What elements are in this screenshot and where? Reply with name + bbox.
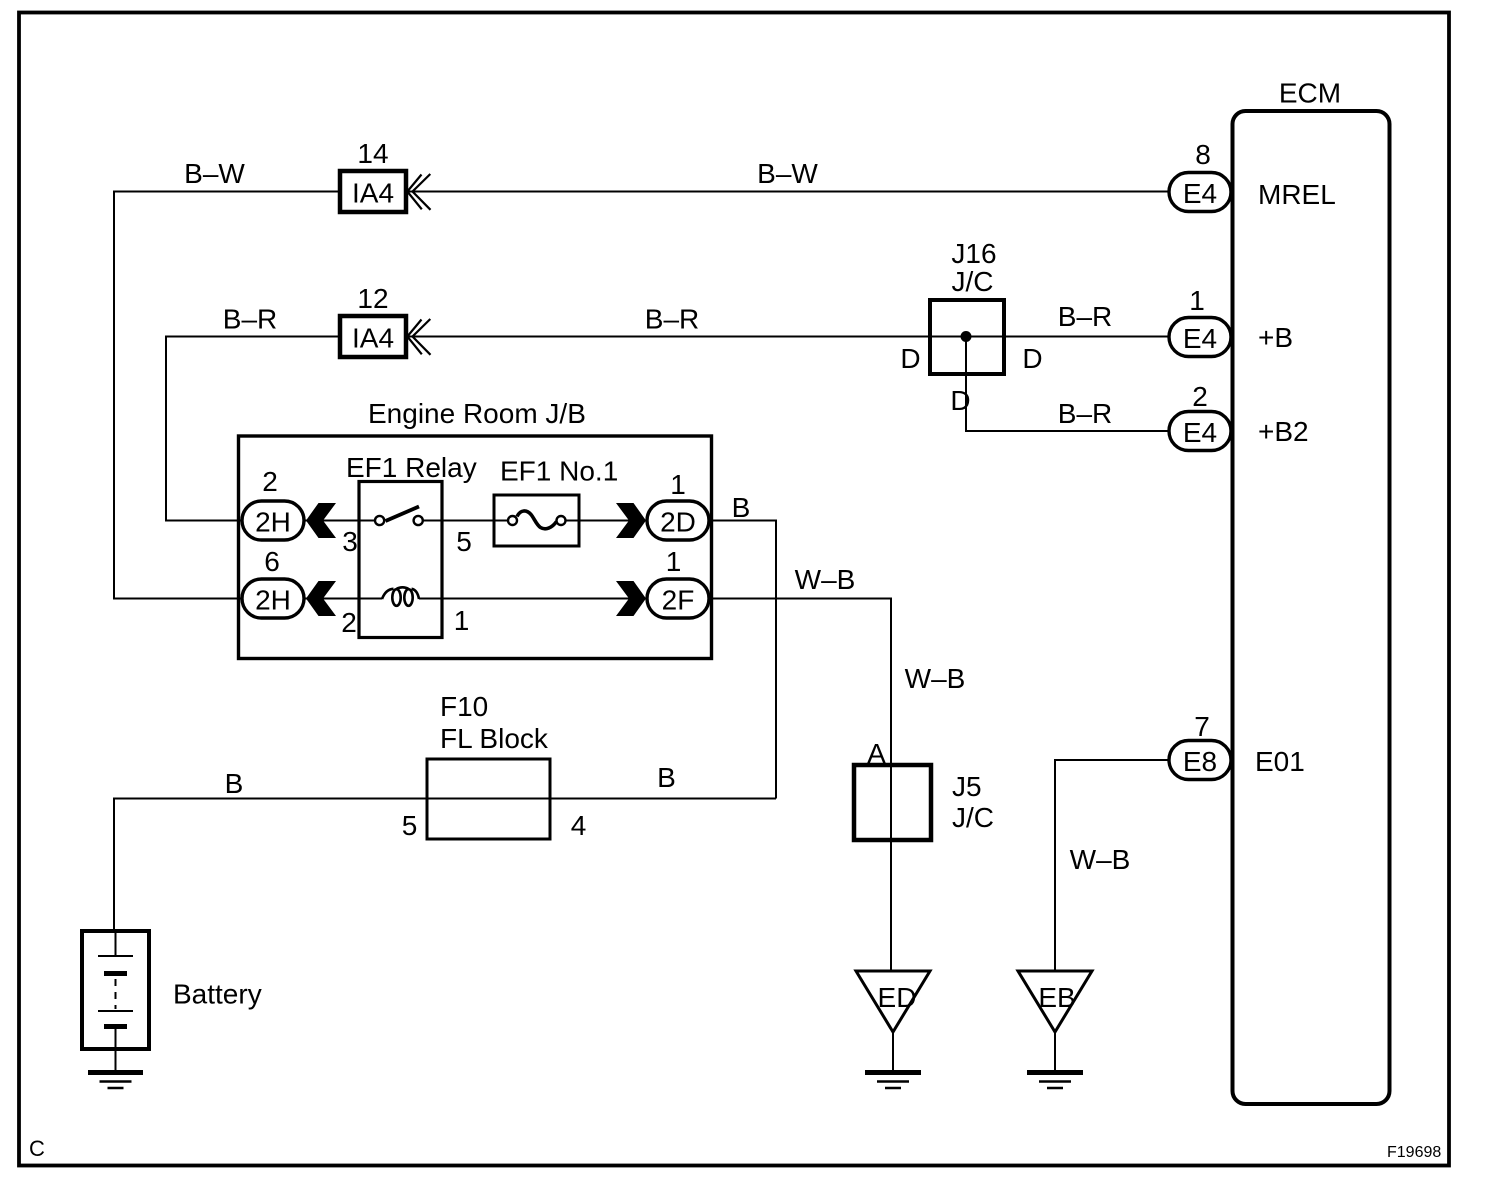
svg-text:B–W: B–W [184, 158, 245, 189]
svg-text:J16: J16 [951, 238, 996, 269]
svg-text:+B2: +B2 [1258, 416, 1309, 447]
svg-text:D: D [950, 385, 970, 416]
svg-text:2: 2 [341, 607, 357, 638]
svg-text:5: 5 [402, 810, 418, 841]
svg-text:2: 2 [262, 466, 278, 497]
svg-text:1: 1 [670, 469, 686, 500]
svg-text:Engine Room J/B: Engine Room J/B [368, 398, 586, 429]
svg-text:E4: E4 [1183, 178, 1217, 209]
svg-text:W–B: W–B [795, 564, 856, 595]
svg-text:8: 8 [1195, 139, 1211, 170]
svg-text:A: A [867, 738, 886, 769]
svg-text:+B: +B [1258, 322, 1293, 353]
svg-text:1: 1 [454, 605, 470, 636]
svg-text:4: 4 [571, 810, 587, 841]
svg-text:5: 5 [456, 526, 472, 557]
svg-text:2H: 2H [255, 585, 291, 616]
svg-text:1: 1 [666, 546, 682, 577]
svg-text:1: 1 [1189, 285, 1205, 316]
svg-text:B: B [657, 762, 676, 793]
svg-text:MREL: MREL [1258, 179, 1336, 210]
svg-text:3: 3 [342, 526, 358, 557]
svg-text:ED: ED [878, 982, 917, 1013]
svg-text:D: D [900, 343, 920, 374]
svg-text:W–B: W–B [1070, 844, 1131, 875]
svg-text:C: C [29, 1136, 45, 1161]
svg-text:FL Block: FL Block [440, 723, 549, 754]
svg-text:B–R: B–R [1058, 301, 1112, 332]
svg-text:EF1 No.1: EF1 No.1 [500, 456, 618, 487]
svg-text:EF1 Relay: EF1 Relay [346, 452, 477, 483]
svg-text:D: D [1022, 343, 1042, 374]
svg-text:IA4: IA4 [352, 178, 394, 209]
svg-text:B–W: B–W [757, 158, 818, 189]
svg-text:J/C: J/C [952, 802, 994, 833]
svg-text:2: 2 [1192, 381, 1208, 412]
svg-text:2H: 2H [255, 507, 291, 538]
svg-text:B–R: B–R [645, 304, 699, 335]
svg-text:7: 7 [1194, 711, 1210, 742]
svg-text:F10: F10 [440, 691, 488, 722]
svg-text:14: 14 [357, 138, 388, 169]
svg-text:E4: E4 [1183, 417, 1217, 448]
svg-text:2D: 2D [660, 507, 696, 538]
svg-text:E01: E01 [1255, 746, 1305, 777]
svg-text:B–R: B–R [223, 304, 277, 335]
svg-text:B–R: B–R [1058, 398, 1112, 429]
svg-text:E4: E4 [1183, 323, 1217, 354]
svg-text:ECM: ECM [1279, 78, 1341, 109]
svg-text:12: 12 [357, 283, 388, 314]
svg-text:6: 6 [264, 546, 280, 577]
svg-text:W–B: W–B [905, 663, 966, 694]
svg-text:EB: EB [1038, 982, 1075, 1013]
svg-text:E8: E8 [1183, 746, 1217, 777]
svg-text:B: B [225, 768, 244, 799]
svg-text:Battery: Battery [173, 979, 262, 1010]
svg-text:J5: J5 [952, 771, 982, 802]
svg-text:J/C: J/C [952, 266, 994, 297]
svg-text:F19698: F19698 [1387, 1144, 1441, 1161]
svg-text:B: B [732, 492, 751, 523]
svg-text:IA4: IA4 [352, 323, 394, 354]
svg-text:2F: 2F [662, 585, 695, 616]
